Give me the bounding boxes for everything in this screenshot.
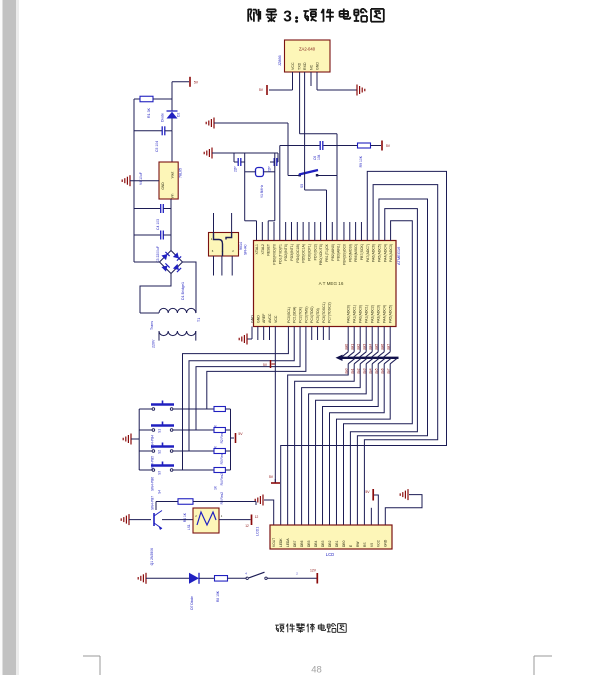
svg-text:PA4(ADC4): PA4(ADC4) bbox=[383, 305, 387, 323]
svg-text:dat7: dat7 bbox=[386, 344, 390, 350]
svg-text:SW4-PB6: SW4-PB6 bbox=[151, 477, 155, 491]
svg-text:PB2(AIN0): PB2(AIN0) bbox=[331, 244, 335, 261]
svg-text:PC6(TOSC1): PC6(TOSC1) bbox=[322, 302, 326, 323]
svg-text:D7 Diode: D7 Diode bbox=[190, 596, 194, 610]
svg-text:GND: GND bbox=[256, 315, 260, 323]
svg-text:PA1(ADC1): PA1(ADC1) bbox=[353, 305, 357, 323]
svg-text:Y1 8MHz: Y1 8MHz bbox=[260, 184, 264, 198]
svg-text:V4 10uF: V4 10uF bbox=[139, 172, 143, 185]
svg-text:RXD: RXD bbox=[303, 62, 307, 70]
svg-text:VCC: VCC bbox=[291, 62, 295, 70]
svg-text:PA0(ADC0): PA0(ADC0) bbox=[347, 305, 351, 323]
svg-text:D1 Bridge1: D1 Bridge1 bbox=[181, 282, 185, 300]
svg-text:12V: 12V bbox=[310, 569, 317, 573]
svg-text:PC3(TMS): PC3(TMS) bbox=[304, 306, 308, 323]
svg-text:RESET: RESET bbox=[267, 243, 271, 256]
svg-text:S3: S3 bbox=[158, 471, 162, 475]
svg-text:dat6: dat6 bbox=[380, 344, 384, 350]
svg-text:PC1(SDA): PC1(SDA) bbox=[293, 307, 297, 323]
svg-text:SW4-PB5: SW4-PB5 bbox=[151, 456, 155, 470]
svg-text:PB6(MISO): PB6(MISO) bbox=[354, 244, 358, 262]
svg-text:22P: 22P bbox=[234, 166, 238, 172]
svg-text:NC: NC bbox=[309, 64, 313, 70]
svg-text:PA4(ADC4): PA4(ADC4) bbox=[383, 244, 387, 262]
svg-text:GND: GND bbox=[161, 182, 165, 190]
svg-text:dat5: dat5 bbox=[374, 344, 378, 350]
svg-text:da1: da1 bbox=[350, 368, 354, 374]
svg-text:R5 Res2: R5 Res2 bbox=[220, 492, 224, 505]
svg-text:R8 10K: R8 10K bbox=[216, 590, 220, 602]
svg-text:PB0(XCK/T0): PB0(XCK/T0) bbox=[319, 244, 323, 265]
svg-text:PA5(ADC5): PA5(ADC5) bbox=[389, 305, 393, 323]
svg-text:dat3: dat3 bbox=[362, 344, 366, 350]
svg-text:PC0(SCL): PC0(SCL) bbox=[287, 307, 291, 323]
svg-text:da6: da6 bbox=[380, 368, 384, 374]
svg-text:XTAL1: XTAL1 bbox=[255, 244, 259, 254]
svg-text:da5: da5 bbox=[374, 368, 378, 374]
svg-text:48: 48 bbox=[311, 665, 322, 676]
svg-text:D2: D2 bbox=[177, 113, 181, 117]
svg-text:3: 3 bbox=[283, 8, 292, 25]
svg-text:220V: 220V bbox=[152, 339, 156, 348]
svg-text:Vout: Vout bbox=[171, 172, 175, 179]
svg-text:PA3(ADC3): PA3(ADC3) bbox=[389, 244, 393, 262]
svg-text:V0: V0 bbox=[370, 543, 374, 547]
svg-text:PA1(ADC1): PA1(ADC1) bbox=[365, 305, 369, 323]
svg-text:5V: 5V bbox=[259, 88, 264, 92]
svg-text:LEDK: LEDK bbox=[279, 538, 283, 547]
svg-text:LCD: LCD bbox=[326, 552, 334, 557]
svg-text:R1 3K: R1 3K bbox=[147, 107, 151, 118]
svg-text:VOUT: VOUT bbox=[272, 538, 276, 547]
svg-text:JZ866: JZ866 bbox=[278, 55, 282, 66]
svg-text:AVCC: AVCC bbox=[268, 313, 272, 323]
svg-text:GND: GND bbox=[251, 315, 255, 323]
svg-text:S2: S2 bbox=[158, 450, 162, 454]
svg-text:SW4-PB7: SW4-PB7 bbox=[151, 496, 155, 510]
svg-text:5V: 5V bbox=[238, 432, 243, 436]
svg-text:S1: S1 bbox=[158, 429, 162, 433]
svg-text:78L05: 78L05 bbox=[179, 168, 183, 178]
svg-text:dat2: dat2 bbox=[356, 344, 360, 350]
svg-text:RW: RW bbox=[356, 541, 360, 547]
svg-text:LEDA: LEDA bbox=[286, 538, 290, 547]
svg-text:PD2(INT0): PD2(INT0) bbox=[284, 244, 288, 261]
svg-text:C5 104: C5 104 bbox=[155, 141, 159, 152]
svg-text:S5: S5 bbox=[300, 184, 304, 188]
svg-text:dat1: dat1 bbox=[350, 344, 354, 350]
svg-text:dat4: dat4 bbox=[368, 344, 372, 350]
svg-text:PA0(ADC0): PA0(ADC0) bbox=[359, 305, 363, 323]
svg-text:GND: GND bbox=[384, 539, 388, 547]
svg-text:LS1: LS1 bbox=[187, 524, 191, 530]
svg-text:da0: da0 bbox=[344, 368, 348, 374]
svg-text:C4 103: C4 103 bbox=[156, 219, 160, 230]
svg-text:AREF: AREF bbox=[262, 314, 266, 323]
svg-text:PA7(ADC7): PA7(ADC7) bbox=[366, 244, 370, 262]
svg-text:9014: 9014 bbox=[239, 242, 243, 250]
svg-text:PB5(MOSI): PB5(MOSI) bbox=[348, 244, 352, 262]
svg-text:DB0: DB0 bbox=[342, 540, 346, 547]
svg-text:PD4(OC1B): PD4(OC1B) bbox=[296, 244, 300, 263]
svg-text:GND: GND bbox=[315, 62, 319, 70]
svg-text:LCD1: LCD1 bbox=[256, 527, 260, 536]
svg-text:PA2(ADC2): PA2(ADC2) bbox=[371, 305, 375, 323]
svg-text:12: 12 bbox=[245, 524, 249, 528]
svg-text:PD7(OC2): PD7(OC2) bbox=[313, 244, 317, 260]
svg-text:PD5(OC1A): PD5(OC1A) bbox=[302, 244, 306, 263]
svg-text:da3: da3 bbox=[362, 368, 366, 374]
svg-text:XTAL2: XTAL2 bbox=[261, 244, 265, 254]
svg-text:T1: T1 bbox=[197, 318, 201, 322]
svg-text:R4 Res2: R4 Res2 bbox=[220, 473, 224, 486]
svg-text:PD0(RXD)T0: PD0(RXD)T0 bbox=[272, 244, 276, 265]
svg-text:RS: RS bbox=[363, 542, 367, 547]
svg-text:22P: 22P bbox=[268, 166, 272, 172]
svg-text:C3 2200uF: C3 2200uF bbox=[156, 246, 160, 263]
svg-text:PA6(ADC6): PA6(ADC6) bbox=[372, 244, 376, 262]
svg-text:Diode: Diode bbox=[161, 113, 165, 122]
svg-text:DB7: DB7 bbox=[293, 540, 297, 547]
svg-text:5V: 5V bbox=[269, 475, 274, 479]
svg-text:Q1 2N3906: Q1 2N3906 bbox=[150, 548, 154, 565]
svg-text:dat0: dat0 bbox=[344, 344, 348, 350]
svg-text:S4: S4 bbox=[158, 490, 162, 494]
svg-text:Vin: Vin bbox=[171, 193, 175, 198]
svg-text:DB5: DB5 bbox=[307, 540, 311, 547]
svg-text:PB7(SCK): PB7(SCK) bbox=[360, 244, 364, 260]
svg-text:VCC: VCC bbox=[377, 539, 381, 547]
svg-text:PD1(TXD)T1: PD1(TXD)T1 bbox=[278, 244, 282, 264]
svg-text:PC4(TDO): PC4(TDO) bbox=[310, 306, 314, 323]
svg-text:PA3(ADC3): PA3(ADC3) bbox=[377, 305, 381, 323]
svg-text:DB4: DB4 bbox=[314, 540, 318, 547]
svg-text:5V: 5V bbox=[194, 80, 199, 84]
svg-text:PC5(TDI): PC5(TDI) bbox=[316, 308, 320, 323]
svg-text:DB6: DB6 bbox=[300, 540, 304, 547]
svg-text:PC2(TCK): PC2(TCK) bbox=[299, 307, 303, 323]
svg-text:Trans: Trans bbox=[150, 321, 154, 330]
svg-text:R4 1K: R4 1K bbox=[183, 512, 187, 522]
svg-text:A T MEG 16: A T MEG 16 bbox=[319, 281, 344, 286]
svg-text:DB3: DB3 bbox=[321, 540, 325, 547]
svg-text:DB1: DB1 bbox=[335, 540, 339, 547]
svg-text:PD3(INT1): PD3(INT1) bbox=[290, 244, 294, 261]
svg-text:da7: da7 bbox=[386, 368, 390, 374]
svg-text:104: 104 bbox=[317, 154, 321, 160]
svg-text:da4: da4 bbox=[368, 368, 372, 374]
svg-text:5V: 5V bbox=[386, 144, 391, 148]
svg-text:PD6(ICP1): PD6(ICP1) bbox=[307, 244, 311, 261]
svg-text:PB4(SS)OC0: PB4(SS)OC0 bbox=[342, 244, 346, 265]
svg-text:DB2: DB2 bbox=[328, 540, 332, 547]
svg-text:R9 10K: R9 10K bbox=[359, 155, 363, 167]
svg-text:PB3(AIN1): PB3(AIN1) bbox=[337, 244, 341, 261]
svg-text:12: 12 bbox=[255, 515, 259, 519]
svg-text:da2: da2 bbox=[356, 368, 360, 374]
svg-text:ZA2-040: ZA2-040 bbox=[299, 47, 316, 52]
svg-text:PB1(T1)CK: PB1(T1)CK bbox=[325, 243, 329, 262]
svg-text:VCC: VCC bbox=[274, 315, 278, 323]
svg-text:ATMEG16: ATMEG16 bbox=[396, 246, 401, 265]
svg-text:PC7(TOSC2): PC7(TOSC2) bbox=[328, 302, 332, 323]
svg-text:SFH40: SFH40 bbox=[244, 244, 248, 255]
svg-text:TXD: TXD bbox=[297, 62, 301, 70]
svg-text:5V: 5V bbox=[365, 490, 370, 494]
svg-text:PA5(ADC5): PA5(ADC5) bbox=[377, 244, 381, 262]
